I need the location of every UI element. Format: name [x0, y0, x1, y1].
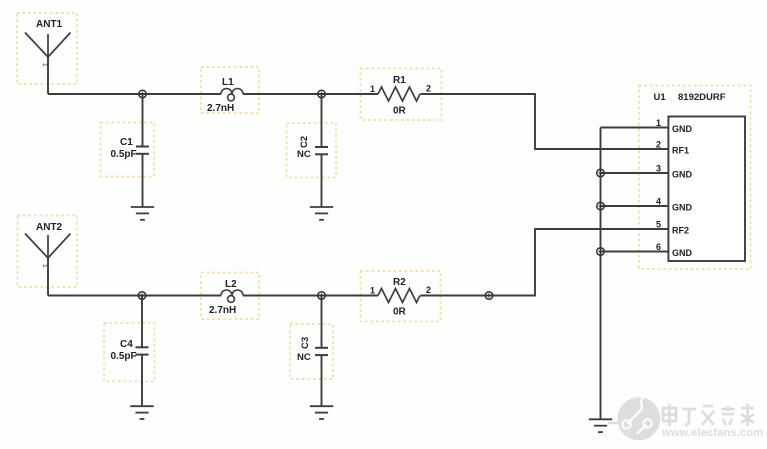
wire pin1 to bus	[601, 127, 669, 129]
svg-text:4: 4	[656, 197, 661, 207]
svg-text:1: 1	[370, 286, 375, 296]
svg-text:L2: L2	[225, 279, 237, 290]
svg-text:GND: GND	[672, 203, 693, 213]
svg-text:L1: L1	[222, 77, 234, 88]
svg-text:0R: 0R	[393, 106, 407, 117]
node on bus pin3	[597, 169, 605, 177]
ground under C4	[130, 406, 153, 419]
svg-text:0R: 0R	[393, 307, 407, 318]
box L1	[201, 67, 259, 113]
wire C1 to ground	[142, 154, 144, 207]
wire ANT2 stem	[47, 258, 49, 296]
svg-text:6: 6	[656, 242, 661, 252]
node on bottom wire at C3	[318, 292, 326, 300]
capacitor C4	[136, 347, 149, 354]
svg-text:ANT1: ANT1	[36, 19, 63, 30]
svg-text:GND: GND	[672, 170, 693, 180]
node on top wire at C2	[318, 90, 326, 98]
wire C3 drop	[321, 296, 323, 348]
logo circle	[608, 397, 660, 440]
resistor R1	[378, 87, 420, 101]
box U1	[639, 86, 751, 270]
svg-text:R1: R1	[393, 75, 406, 86]
svg-text:U1: U1	[654, 92, 667, 103]
antenna ANT2	[25, 234, 71, 259]
svg-text:C4: C4	[120, 339, 133, 350]
ground under C2	[310, 207, 333, 220]
wire GND bus vertical	[600, 128, 602, 420]
box ANT1	[17, 13, 77, 84]
svg-text:8192DURF: 8192DURF	[678, 92, 726, 103]
wire L2 to R2	[243, 295, 378, 297]
svg-text:ANT2: ANT2	[36, 222, 63, 233]
capacitor C2	[315, 147, 328, 154]
antenna ANT1	[25, 33, 71, 58]
svg-text:0.5pF: 0.5pF	[111, 149, 137, 160]
svg-text:RF1: RF1	[672, 146, 689, 156]
svg-text:1: 1	[41, 63, 48, 67]
svg-text:R2: R2	[393, 277, 406, 288]
svg-text:NC: NC	[297, 149, 311, 160]
svg-text:5: 5	[656, 220, 661, 230]
svg-text:1: 1	[370, 84, 375, 94]
wire C2 drop	[321, 94, 323, 147]
box R2	[361, 271, 441, 322]
svg-text:2: 2	[426, 84, 431, 94]
svg-text:C1: C1	[120, 137, 133, 148]
wire ANT1 stem	[47, 57, 49, 94]
svg-text:0.5pF: 0.5pF	[111, 351, 137, 362]
node on bottom wire at C4	[138, 292, 146, 300]
wire pin3 to bus	[601, 172, 669, 174]
node on bottom wire after R2	[485, 292, 493, 300]
node on bus pin4	[597, 202, 605, 210]
wire top branch horizontal	[48, 93, 221, 95]
capacitor C1	[136, 147, 149, 154]
svg-text:2.7nH: 2.7nH	[207, 103, 234, 114]
wire L1 to R1	[243, 93, 378, 95]
box R1	[361, 69, 442, 121]
svg-text:GND: GND	[672, 124, 693, 134]
wire R1 to corner, down to RF1	[421, 94, 669, 149]
svg-text:1: 1	[41, 264, 48, 268]
svg-text:NC: NC	[297, 352, 311, 363]
wire C4 to ground	[141, 355, 143, 407]
svg-text:C2: C2	[299, 136, 310, 148]
wire C3 to ground	[321, 355, 323, 406]
svg-text:2: 2	[426, 285, 431, 295]
capacitor C3	[315, 348, 328, 355]
svg-text:C3: C3	[300, 337, 311, 349]
svg-text:GND: GND	[672, 248, 693, 258]
inductor L2	[221, 290, 243, 302]
wire C1 drop	[142, 94, 144, 146]
node on bus pin6	[597, 248, 605, 256]
wire pin4 to bus	[601, 205, 669, 207]
wire C2 to ground	[321, 155, 323, 207]
wire C4 drop	[141, 296, 143, 348]
svg-text:1: 1	[656, 118, 661, 128]
box C2	[287, 123, 337, 178]
wire bottom branch horizontal	[48, 295, 221, 297]
svg-text:3: 3	[656, 164, 661, 174]
svg-text:2.7nH: 2.7nH	[209, 305, 236, 316]
wire pin6 to bus	[601, 251, 669, 253]
box ANT2	[18, 216, 78, 288]
box C4	[104, 323, 155, 382]
fake CJK watermark text 电子发烧友	[663, 404, 754, 426]
box C1	[101, 123, 155, 177]
node on top wire at C1	[139, 90, 147, 98]
ground under C1	[131, 207, 154, 220]
box L2	[201, 273, 259, 320]
box C3	[290, 324, 333, 379]
wire R2 to corner, up to RF2	[421, 229, 669, 296]
IC U1 body	[668, 117, 745, 262]
ground under U1 bus	[589, 419, 612, 432]
svg-text:www.elecfans.com: www.elecfans.com	[661, 427, 763, 439]
svg-text:RF2: RF2	[672, 226, 689, 236]
resistor R2	[378, 289, 420, 303]
ground under C3	[310, 406, 333, 419]
svg-text:2: 2	[656, 140, 661, 150]
inductor L1	[221, 89, 243, 101]
